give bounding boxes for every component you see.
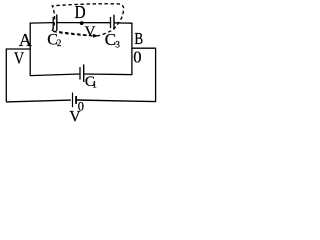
wire left branch horizontal at A [6, 48, 30, 50]
node D junction dot [80, 21, 84, 25]
svg-text:B: B [134, 29, 143, 48]
svg-text:V: V [14, 48, 24, 67]
capacitor C2 [53, 15, 57, 31]
svg-text:V: V [85, 24, 96, 40]
wire right outer vertical [155, 48, 157, 103]
svg-text:0: 0 [78, 99, 84, 113]
svg-text:3: 3 [115, 40, 120, 50]
battery V0 [73, 93, 77, 108]
svg-text:1: 1 [92, 80, 97, 90]
svg-text:0: 0 [133, 47, 141, 66]
wire middle branch left of C1 [30, 74, 79, 76]
wire bottom right from battery [77, 100, 156, 102]
arrowhead on dashed edge [93, 34, 98, 38]
wire top-right segment C3 to corner [114, 22, 132, 24]
wire left vertical from A [29, 23, 31, 77]
svg-text:D: D [75, 2, 86, 22]
wire right branch horizontal at B [132, 47, 156, 49]
wire top-left segment A to C2 [30, 22, 52, 25]
capacitor C3 [111, 15, 115, 30]
wire middle branch right of C1 [84, 73, 132, 76]
wire bottom left to battery [6, 100, 71, 102]
dashed enclosure D [52, 4, 124, 36]
wire left outer vertical [5, 48, 7, 102]
svg-text:2: 2 [57, 38, 62, 48]
wire right vertical to B [131, 23, 133, 76]
wire top-middle segment C2 to C3 [57, 22, 110, 24]
capacitor C1 [80, 64, 84, 82]
